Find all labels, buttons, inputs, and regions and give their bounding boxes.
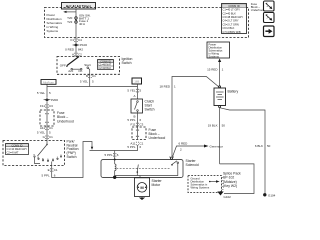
svg-text:C6=2 BLK: C6=2 BLK bbox=[223, 26, 235, 30]
power distribution note box (right) bbox=[207, 42, 230, 58]
terminal F11 C3 (center) bbox=[131, 122, 144, 126]
svg-text:C1: C1 bbox=[92, 74, 96, 78]
label Clutch Start Switch bbox=[145, 100, 155, 112]
svg-text:6 BLK: 6 BLK bbox=[255, 144, 263, 148]
svg-text:5 YEL: 5 YEL bbox=[127, 89, 135, 93]
svg-text:Solenoid: Solenoid bbox=[186, 163, 199, 167]
svg-text:C2: C2 bbox=[78, 52, 82, 56]
svg-text:CONN ID: CONN ID bbox=[12, 143, 23, 147]
svg-text:E: E bbox=[48, 168, 50, 172]
svg-text:On: On bbox=[78, 69, 82, 73]
svg-text:F11: F11 bbox=[40, 104, 45, 108]
battery negative wire down to splice bbox=[219, 108, 221, 164]
terminal F1 C4 at fuse block output bbox=[70, 38, 82, 42]
svg-text:5 PPL: 5 PPL bbox=[105, 153, 114, 157]
wire label 5 YEL 5 (left branch) bbox=[37, 91, 51, 95]
svg-text:5 PPL: 5 PPL bbox=[42, 174, 51, 178]
solenoid contact arm bbox=[115, 161, 179, 178]
splice loop wire bbox=[220, 164, 254, 194]
wire label 18 RED 1 bbox=[159, 84, 176, 88]
wire label 5 YEL 5 (clutch feed) bbox=[127, 89, 141, 93]
svg-text:C4: C4 bbox=[78, 38, 82, 42]
terminal E C1 at PNP output bbox=[48, 168, 58, 172]
svg-text:C7=4 BRN W/B: C7=4 BRN W/B bbox=[223, 30, 241, 34]
svg-text:(Key W2): (Key W2) bbox=[223, 184, 237, 188]
connector table (fuse block underhood) bbox=[222, 4, 247, 34]
label "Hot At All Times" banner bbox=[62, 3, 96, 10]
svg-text:50: 50 bbox=[222, 124, 226, 128]
ignition switch dashed box bbox=[57, 57, 120, 75]
wire PNP output routed to crank voltage node bbox=[52, 142, 92, 178]
ground G102 bbox=[217, 191, 231, 199]
svg-text:F1: F1 bbox=[70, 38, 74, 42]
note Power Distribution Schematics in Wiring Systems (left) bbox=[47, 13, 63, 33]
svg-text:OFF: OFF bbox=[60, 64, 66, 68]
svg-text:Acc: Acc bbox=[68, 69, 74, 73]
wire label 15 RED 1 bbox=[207, 68, 224, 72]
hyperlink icon 2 bbox=[264, 13, 275, 23]
wire ignition switch output bbox=[89, 74, 91, 86]
wire label 5 PPL 6 (PNP output) bbox=[42, 174, 56, 178]
terminal A C2 at ignition switch bbox=[72, 52, 82, 56]
inline connector P200 bbox=[44, 98, 59, 102]
battery bbox=[214, 86, 226, 108]
wire from fuse down to ignition switch bbox=[75, 23, 77, 57]
crank voltage wire to solenoid S terminal bbox=[90, 145, 138, 151]
label Fuse Block - Underhood (left) bbox=[57, 111, 74, 123]
svg-text:Underhood: Underhood bbox=[149, 136, 166, 140]
svg-text:842: 842 bbox=[78, 48, 83, 52]
svg-text:40 A: 40 A bbox=[79, 22, 85, 26]
svg-text:19 BLK: 19 BLK bbox=[208, 124, 218, 128]
wire label 6 BLK 50 bbox=[255, 144, 271, 148]
page reference tag above left branch bbox=[41, 80, 56, 85]
svg-text:Underhood: Underhood bbox=[251, 8, 265, 12]
svg-text:6 RED: 6 RED bbox=[179, 142, 189, 146]
svg-text:C1=40 LT GRY: C1=40 LT GRY bbox=[223, 8, 241, 12]
svg-text:F11: F11 bbox=[131, 122, 136, 126]
svg-text:50: 50 bbox=[267, 144, 271, 148]
svg-text:P100: P100 bbox=[80, 43, 87, 47]
label Park Neutral Position PNP Switch bbox=[67, 140, 79, 159]
wire label 0 RED 842 bbox=[65, 48, 83, 52]
wire from Hot At All Times down to Fuse 1 bbox=[75, 9, 77, 17]
wire label 5 PPL 6 (center) bbox=[127, 145, 141, 149]
svg-text:C3: C3 bbox=[49, 104, 53, 108]
arrow from note to splice pack bbox=[209, 180, 220, 183]
ground branch to G104 bbox=[220, 108, 265, 194]
battery positive feed wire with arrow up bbox=[218, 59, 221, 87]
fuse F1 (IGN SW BATT Fuse 1 40 A) bbox=[67, 13, 91, 26]
fuse block underhood dashed box (left) bbox=[40, 110, 54, 126]
svg-text:C2=4 NAT: C2=4 NAT bbox=[7, 150, 19, 154]
svg-text:C1: C1 bbox=[54, 168, 58, 172]
junction dot on starter case bbox=[113, 176, 116, 179]
ignition switch contacts bbox=[60, 57, 91, 75]
arrow into crank wire bbox=[91, 147, 93, 150]
svg-text:A: A bbox=[72, 52, 74, 56]
svg-text:C4=2 LT GRY: C4=2 LT GRY bbox=[223, 19, 239, 23]
terminal A11 C1 (left) bbox=[40, 126, 53, 130]
tap arrow to power distribution note bbox=[63, 11, 76, 13]
terminal A11 C1 (center) bbox=[130, 141, 143, 145]
label Fuse Block - Underhood (center) bbox=[149, 128, 166, 140]
svg-text:C3=48 MED GRY: C3=48 MED GRY bbox=[223, 15, 244, 19]
inline connector P100 bbox=[73, 43, 88, 47]
starter motor ground bbox=[139, 197, 145, 201]
wire from tag down to clutch start switch bbox=[137, 84, 139, 99]
solenoid B terminal bbox=[170, 157, 172, 159]
power distribution dashed box bbox=[45, 8, 249, 38]
ground distribution dashed box bbox=[188, 176, 224, 193]
svg-text:B: B bbox=[86, 74, 88, 78]
svg-text:Battery: Battery bbox=[228, 89, 239, 93]
svg-text:CONN ID: CONN ID bbox=[228, 4, 239, 8]
svg-text:C2=40 BLK: C2=40 BLK bbox=[223, 11, 237, 15]
terminal F11 C3 (left) bbox=[40, 104, 53, 108]
svg-text:Wiring Systems: Wiring Systems bbox=[191, 186, 210, 190]
svg-text:C2=48 BLK: C2=48 BLK bbox=[98, 67, 111, 70]
clutch start switch bbox=[131, 99, 143, 113]
svg-text:0 RED: 0 RED bbox=[65, 48, 75, 52]
svg-text:18 RED: 18 RED bbox=[159, 84, 170, 88]
svg-text:Motor: Motor bbox=[152, 183, 162, 187]
svg-text:P200: P200 bbox=[51, 98, 58, 102]
svg-text:5 PPL: 5 PPL bbox=[127, 145, 136, 149]
wire label 5 PPL 6 bbox=[127, 118, 141, 122]
wire label 5 YEL 5 bbox=[80, 79, 94, 83]
svg-text:Switch: Switch bbox=[145, 108, 155, 112]
svg-text:Switch: Switch bbox=[122, 61, 132, 65]
svg-text:G102: G102 bbox=[224, 195, 232, 199]
PNP switch contacts bbox=[34, 141, 63, 166]
wire to PNP switch bbox=[46, 126, 48, 141]
svg-text:C5=2 LT GRN: C5=2 LT GRN bbox=[223, 22, 239, 26]
label Starter Solenoid bbox=[186, 159, 199, 167]
starter motor bbox=[135, 178, 150, 197]
ground G104 bbox=[263, 193, 276, 197]
label Starter Motor bbox=[152, 179, 163, 187]
svg-text:Underhood: Underhood bbox=[57, 119, 74, 123]
svg-text:5 YEL: 5 YEL bbox=[37, 130, 45, 134]
solenoid pull-in coil bbox=[115, 160, 116, 178]
left branch wire down bbox=[46, 84, 48, 98]
svg-text:T23: T23 bbox=[67, 20, 73, 24]
ignition switch connector table bbox=[98, 60, 114, 70]
svg-text:C1=10 MED GRY: C1=10 MED GRY bbox=[7, 147, 28, 151]
svg-text:Systems: Systems bbox=[209, 54, 220, 58]
wire label 5 YEL 5 (to PNP) bbox=[37, 130, 51, 134]
svg-text:169: 169 bbox=[134, 80, 139, 84]
battery feed wire 18 RED to solenoid bbox=[172, 77, 219, 158]
terminal B C1 bbox=[86, 74, 96, 78]
fuse block underhood dashed box (center) bbox=[132, 127, 146, 140]
svg-text:Switch: Switch bbox=[67, 155, 77, 159]
label Fuse Block - Underhood (top right) bbox=[251, 2, 265, 12]
svg-text:C1: C1 bbox=[49, 135, 53, 139]
wire junction to left and right branches bbox=[47, 86, 138, 88]
wire to fuse block bbox=[46, 101, 48, 110]
svg-text:C3: C3 bbox=[140, 122, 144, 126]
svg-text:Systems: Systems bbox=[47, 29, 59, 33]
label Splice Pack SP102 bbox=[223, 171, 241, 188]
svg-text:Generator: Generator bbox=[210, 144, 224, 148]
PNP connector table bbox=[6, 143, 29, 154]
label Ignition Switch bbox=[122, 57, 133, 65]
generator feed 6 RED bbox=[173, 142, 224, 157]
PNP switch dashed box bbox=[3, 141, 65, 166]
svg-text:G104: G104 bbox=[268, 193, 276, 197]
terminal G C1 at PNP switch bbox=[43, 135, 54, 139]
svg-text:5 YEL: 5 YEL bbox=[80, 79, 88, 83]
terminal B at clutch switch output bbox=[133, 113, 137, 127]
svg-text:5 YEL: 5 YEL bbox=[37, 91, 45, 95]
solenoid actuation dashed link bbox=[117, 167, 171, 169]
solenoid S terminal junction bbox=[114, 159, 116, 161]
arrow icon 3 bbox=[264, 26, 275, 37]
starter assembly box bbox=[101, 160, 183, 178]
wire label 19 BLK 50 bbox=[208, 124, 226, 128]
svg-text:A: A bbox=[133, 94, 135, 98]
wire label 5 PPL 6 (S terminal) bbox=[105, 153, 119, 157]
page reference tag above clutch switch feed bbox=[132, 78, 142, 84]
svg-text:MinFuse: MinFuse bbox=[43, 80, 54, 84]
hyperlink icon 1 bbox=[264, 1, 275, 11]
svg-text:15 RED: 15 RED bbox=[207, 68, 218, 72]
